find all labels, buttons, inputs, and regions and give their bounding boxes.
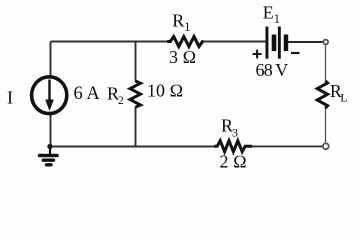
wire left branch upper (corner to source top) <box>50 42 52 77</box>
wire middle branch upper (top wire to R2) <box>135 42 137 82</box>
battery minus sign <box>291 52 300 54</box>
resistor R3 (2 ohm) zigzag <box>214 141 252 152</box>
battery E1 plate long left <box>266 27 269 59</box>
resistor R1 (3 ohm) zigzag <box>167 37 203 47</box>
svg-text:I: I <box>7 88 13 108</box>
battery E1 plate short <box>272 35 277 52</box>
battery plus sign <box>253 50 262 59</box>
resistor RL zigzag <box>317 81 327 109</box>
current source arrow <box>45 80 54 112</box>
svg-text:68 V: 68 V <box>256 60 289 80</box>
wire bottom from R3 to bottom-right terminal <box>252 145 323 147</box>
ground symbol <box>40 147 58 165</box>
battery E1 plate long right <box>278 27 281 59</box>
svg-text:10 Ω: 10 Ω <box>147 81 183 101</box>
bottom-right open terminal <box>323 143 329 149</box>
junction dot at ground node <box>47 144 52 149</box>
wire top from R1 to battery E1 <box>203 41 266 43</box>
current source I circle <box>32 77 67 114</box>
svg-text:6 A: 6 A <box>74 84 101 104</box>
wire left branch lower (source bottom to ground node) <box>50 114 52 147</box>
resistor R2 (10 ohm) zigzag <box>130 81 141 107</box>
wire middle branch lower (R2 to bottom wire) <box>135 107 137 147</box>
wire right branch upper (terminal to RL) <box>325 45 327 81</box>
top-right open terminal <box>323 40 328 45</box>
wire right branch lower (RL to bottom terminal) <box>325 108 327 143</box>
wire battery to top-right terminal <box>288 41 323 43</box>
battery E1 plate short right <box>284 35 289 52</box>
svg-text:3 Ω: 3 Ω <box>169 47 196 67</box>
wire bottom from ground node to R3 <box>50 146 215 148</box>
wire top from left corner to R1 <box>51 41 168 43</box>
svg-text:2 Ω: 2 Ω <box>220 151 247 171</box>
